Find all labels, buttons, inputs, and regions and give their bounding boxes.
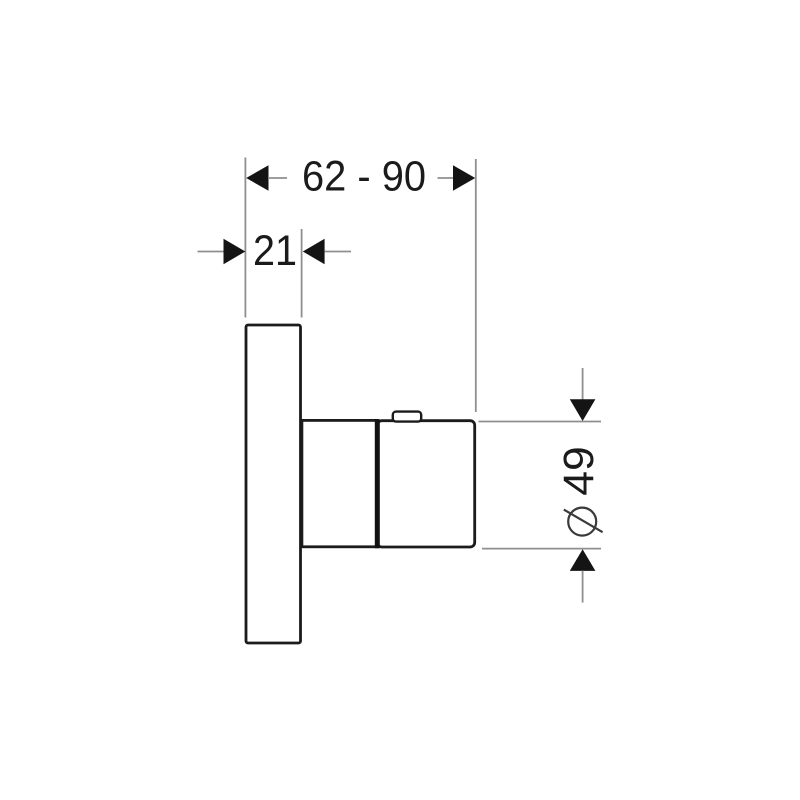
svg-text:21: 21	[253, 227, 297, 275]
dimension dia 49: bottom leader line	[582, 571, 584, 603]
handle	[377, 421, 474, 547]
extension line plate right face (x=301)	[301, 229, 303, 318]
dimension 21: right arrow (points left)	[303, 239, 325, 264]
valve body	[302, 420, 377, 546]
extension line left (wall face, x=245)	[244, 158, 246, 318]
dimension 62-90: right stub line	[438, 177, 455, 179]
dimension dia 49: diameter symbol slash	[564, 510, 603, 533]
wall plate (escutcheon, side view)	[246, 325, 301, 643]
handle top tab	[393, 412, 421, 422]
dimension 21: left arrow (points right)	[224, 239, 246, 264]
dimension dia 49: diameter symbol circle	[568, 508, 596, 536]
handle/body divider (thick line)	[375, 419, 380, 548]
extension line handle top (y=421)	[479, 421, 602, 423]
dimension dia 49: bottom arrow (points up)	[570, 549, 596, 571]
dimension 62-90: left stub line	[268, 177, 287, 179]
extension line handle bottom (y=548.6)	[482, 548, 601, 550]
dimension 21: left leader line	[198, 251, 225, 253]
dimension dia 49: top leader line	[582, 368, 584, 400]
dimension 62-90: left arrow	[246, 165, 268, 191]
dimension 21: right leader line	[325, 251, 351, 253]
dimension dia 49: top arrow (points down)	[570, 399, 596, 421]
extension line handle front (x=476)	[475, 159, 477, 412]
svg-text:49: 49	[555, 446, 603, 496]
dimension 62-90: right arrow	[453, 165, 475, 191]
svg-text:62 - 90: 62 - 90	[302, 153, 426, 201]
